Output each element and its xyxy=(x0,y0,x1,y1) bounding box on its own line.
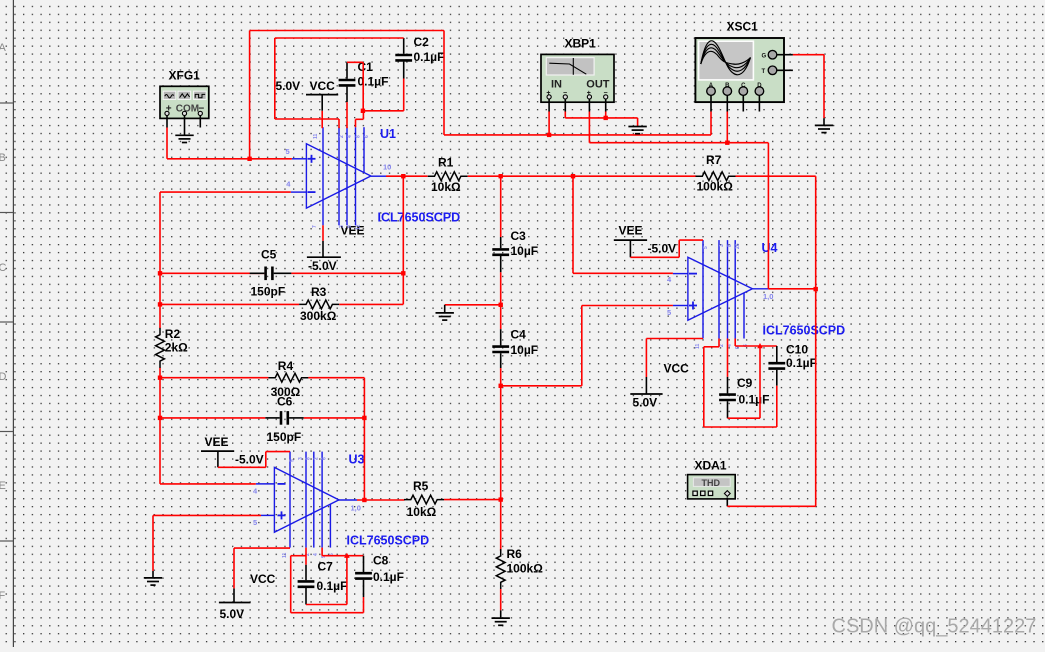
power VCC U3 5.0V xyxy=(219,588,251,602)
svg-text:0.1µF: 0.1µF xyxy=(739,393,770,407)
resistor R6 100k xyxy=(496,549,505,618)
wire C10 bottom outer loop xyxy=(704,339,777,428)
power VCC U4 5.0V xyxy=(630,377,662,394)
svg-text:2: 2 xyxy=(339,135,345,138)
wire U3 pin to C8 top xyxy=(322,548,363,556)
svg-text:8: 8 xyxy=(306,457,312,460)
svg-text:VEE: VEE xyxy=(619,224,643,238)
wire node to U1 pin 8 xyxy=(356,111,364,127)
junction XFG1 to U1 + xyxy=(247,157,251,161)
svg-text:C2: C2 xyxy=(414,35,430,49)
svg-text:VCC: VCC xyxy=(664,362,690,376)
svg-text:R5: R5 xyxy=(413,479,429,493)
svg-text:10: 10 xyxy=(383,163,391,172)
svg-text:G: G xyxy=(762,54,767,60)
svg-text:10kΩ: 10kΩ xyxy=(431,180,461,194)
op-amp U1 ICL7650SCPD xyxy=(291,127,386,225)
svg-text:0.1µF: 0.1µF xyxy=(786,356,817,370)
power VCC U1 5.0V xyxy=(306,95,338,111)
svg-text:-5.0V: -5.0V xyxy=(308,259,337,273)
junction node C1-C2 xyxy=(361,109,365,113)
wire R7 to output corner xyxy=(736,176,816,506)
wire VCC to U1 pin xyxy=(321,111,323,128)
pin labels U1 xyxy=(286,133,392,230)
junction arrow C7-C8 net xyxy=(344,553,350,558)
wire XSC1 T stub xyxy=(777,69,793,71)
ground XBP1 xyxy=(628,126,646,128)
power VEE U1 -5.0V xyxy=(307,241,341,257)
wire U1 inverting input rail xyxy=(160,192,291,484)
svg-text:8: 8 xyxy=(356,135,362,138)
wire VEE to U3 pin xyxy=(218,452,290,468)
wire XBP1 OUT+ to output rail xyxy=(589,99,768,143)
svg-text:U4: U4 xyxy=(762,241,778,255)
junction U4 inverting node xyxy=(571,174,575,178)
svg-text:C9: C9 xyxy=(737,376,753,390)
svg-text:10kΩ: 10kΩ xyxy=(407,505,437,519)
power VEE U3 -5.0V xyxy=(201,451,234,467)
wire output rail down to U4 output xyxy=(767,143,769,289)
junction C3-C4 node xyxy=(499,303,503,307)
op-amp U4 ICL7650SCPD xyxy=(673,240,769,338)
wire U3 output to R5 xyxy=(357,499,405,501)
wire XBP1 IN- to ground xyxy=(565,99,637,127)
instrument XBP1 bode plotter xyxy=(541,54,614,102)
resistor R1 10k xyxy=(428,172,468,181)
wire U4 output xyxy=(768,288,815,290)
svg-text:IN: IN xyxy=(551,79,562,91)
svg-text:A: A xyxy=(0,42,7,54)
svg-text:3: 3 xyxy=(298,457,304,460)
svg-text:XDA1: XDA1 xyxy=(695,459,727,473)
junction C6 right xyxy=(362,416,366,420)
svg-text:T: T xyxy=(762,69,766,75)
pin labels U3 xyxy=(253,457,361,558)
wire C1 bottom to U1 pin xyxy=(346,102,348,128)
svg-text:1,0: 1,0 xyxy=(763,292,773,301)
capacitor C2 0.1uF xyxy=(395,38,412,79)
wire VCC to U4 pin xyxy=(646,339,703,378)
svg-text:XFG1: XFG1 xyxy=(169,69,201,83)
svg-text:B: B xyxy=(0,152,6,164)
junction C6 left xyxy=(158,416,162,420)
svg-text:26: 26 xyxy=(735,243,741,249)
svg-text:CSDN @qq_52441227: CSDN @qq_52441227 xyxy=(832,616,1037,638)
ground C3-C4 node xyxy=(436,312,454,314)
svg-text:XSC1: XSC1 xyxy=(727,20,759,34)
wire C1 top to node xyxy=(347,62,363,111)
svg-text:2: 2 xyxy=(314,457,320,460)
wire U3 + input to ground xyxy=(153,515,261,578)
instrument XFG1 function generator xyxy=(160,86,209,118)
wire U1 VEE pin xyxy=(322,225,324,241)
svg-text:0.1µF: 0.1µF xyxy=(373,570,404,584)
svg-text:R7: R7 xyxy=(706,153,722,167)
wire XDA1 to output rail xyxy=(727,498,815,507)
wire XBP1 IN+ to signal rail xyxy=(548,99,550,135)
svg-text:C10: C10 xyxy=(786,343,808,357)
capacitor C10 0.1uF xyxy=(768,346,785,386)
resistor R3 300k xyxy=(160,176,403,309)
capacitor C5 150pF xyxy=(160,267,403,281)
capacitor C4 10uF xyxy=(492,305,509,386)
junction R5 node xyxy=(499,497,503,501)
svg-text:5: 5 xyxy=(667,308,671,317)
svg-text:0.1µF: 0.1µF xyxy=(414,50,445,64)
junction C4 bottom node xyxy=(499,384,503,388)
capacitor C1 0.1uF xyxy=(339,62,356,102)
svg-text:ICL7650SCPD: ICL7650SCPD xyxy=(763,324,846,338)
svg-text:3: 3 xyxy=(339,225,345,228)
svg-text:R2: R2 xyxy=(165,327,181,341)
wire XSC1 A to signal rail xyxy=(710,96,712,112)
svg-text:5.0V: 5.0V xyxy=(276,79,301,93)
capacitor C3 10uF xyxy=(492,176,509,305)
svg-text:R1: R1 xyxy=(438,156,454,170)
svg-text:150pF: 150pF xyxy=(251,285,286,299)
svg-text:2: 2 xyxy=(719,344,725,347)
wire R5 to node xyxy=(444,499,501,501)
pin labels U4 xyxy=(667,243,773,349)
wire XSC1 G to ground xyxy=(777,55,824,126)
ground R6 xyxy=(492,617,510,619)
ground XSC1 xyxy=(815,124,833,126)
junction U1 output xyxy=(401,174,405,178)
svg-text:1,0: 1,0 xyxy=(351,504,361,513)
junction C3 top node xyxy=(499,174,503,178)
svg-text:E: E xyxy=(0,480,6,492)
svg-text:D: D xyxy=(0,371,7,383)
junction XBP1 IN+ xyxy=(547,133,551,137)
svg-text:10µF: 10µF xyxy=(511,244,539,258)
svg-text:0.1µF: 0.1µF xyxy=(358,75,389,89)
junction C5 left xyxy=(158,271,162,275)
svg-text:100kΩ: 100kΩ xyxy=(697,180,734,194)
wire C2 top loop to U1 pin 2 xyxy=(275,38,404,128)
wire XSC1 C stub xyxy=(742,96,744,112)
svg-text:10µF: 10µF xyxy=(511,343,539,357)
svg-text:4: 4 xyxy=(313,553,319,556)
junction U3 output xyxy=(362,498,366,502)
instrument XDA1 distortion analyzer xyxy=(688,475,736,499)
wire XFG1 minus stub xyxy=(199,115,201,127)
wire U1 output to R1 xyxy=(386,175,428,177)
wire ground branch C3-C4 node xyxy=(445,305,501,313)
wire XFG1 to top rail xyxy=(250,31,711,159)
wire U4 + input branch xyxy=(501,306,673,386)
wire node to R6 xyxy=(500,386,502,551)
svg-text:R4: R4 xyxy=(278,359,294,373)
svg-text:XBP1: XBP1 xyxy=(565,37,597,51)
svg-text:150pF: 150pF xyxy=(267,430,302,444)
svg-text:11: 11 xyxy=(282,552,288,558)
junction R3 left xyxy=(158,302,162,306)
svg-text:U1: U1 xyxy=(380,127,396,141)
svg-text:U3: U3 xyxy=(349,453,365,467)
wire R4-C6 right rail to U3 output xyxy=(363,378,365,500)
svg-text:5.0V: 5.0V xyxy=(633,396,658,410)
wire R1 to R7 xyxy=(468,175,697,177)
svg-text:C: C xyxy=(0,262,7,274)
svg-text:4: 4 xyxy=(347,135,353,138)
svg-text:C8: C8 xyxy=(373,554,389,568)
wire C8 bottom outer loop xyxy=(291,556,364,613)
svg-text:300kΩ: 300kΩ xyxy=(300,309,337,323)
wire XSC1 D stub xyxy=(758,96,760,112)
svg-text:11: 11 xyxy=(313,133,319,139)
svg-text:-5.0V: -5.0V xyxy=(648,242,677,256)
wire C9 bottom to net xyxy=(728,346,761,418)
ground XFG1 xyxy=(175,134,193,136)
svg-text:C4: C4 xyxy=(511,328,527,342)
svg-text:5.0V: 5.0V xyxy=(220,607,245,621)
junction C5 right xyxy=(401,271,405,275)
svg-text:5: 5 xyxy=(253,518,257,527)
resistor R2 2k xyxy=(156,328,165,368)
junction R4 left xyxy=(158,376,162,380)
wire U4 pin to C10 top xyxy=(735,339,777,347)
svg-text:6: 6 xyxy=(322,457,328,460)
wire C7 bottom loop xyxy=(306,556,347,605)
capacitor C7 0.1uF xyxy=(298,548,315,605)
svg-text:COM: COM xyxy=(176,104,199,115)
svg-text:3: 3 xyxy=(719,244,725,247)
wire XSC1 B to output rail xyxy=(726,96,728,143)
svg-text:8: 8 xyxy=(727,244,733,247)
capacitor C9 0.1uF xyxy=(719,339,736,419)
capacitor C6 150pF xyxy=(160,411,364,425)
svg-text:0.1µF: 0.1µF xyxy=(317,579,348,593)
capacitor C8 0.1uF xyxy=(355,556,372,597)
junction XSC1 B xyxy=(725,141,729,145)
svg-text:VEE: VEE xyxy=(205,435,229,449)
ground U3 + xyxy=(144,577,162,579)
svg-text:7: 7 xyxy=(312,225,318,228)
svg-text:F: F xyxy=(0,590,6,602)
power VEE U4 -5.0V xyxy=(614,240,647,257)
svg-text:6: 6 xyxy=(364,135,370,138)
svg-text:THD: THD xyxy=(702,478,721,488)
resistor R5 10k xyxy=(404,495,444,504)
wire C2 bottom to node xyxy=(363,79,404,111)
junction XBP1 OUT- xyxy=(604,116,608,120)
wire XFG1 plus terminal down xyxy=(167,115,292,158)
svg-text:5: 5 xyxy=(703,246,709,249)
svg-text:2kΩ: 2kΩ xyxy=(165,341,188,355)
svg-text:C5: C5 xyxy=(261,248,277,262)
wire U4 inverting branch xyxy=(573,176,673,273)
svg-text:C3: C3 xyxy=(511,229,527,243)
svg-text:9: 9 xyxy=(347,225,353,228)
svg-text:ICL7650SCPD: ICL7650SCPD xyxy=(378,211,461,225)
svg-text:5: 5 xyxy=(286,147,290,156)
junction arrow C9-C10 net xyxy=(757,343,763,348)
resistor R4 300 xyxy=(160,373,364,382)
svg-text:5: 5 xyxy=(290,459,296,462)
junction U4 output xyxy=(814,287,818,291)
wire XFG1 COM to ground xyxy=(184,115,186,135)
op-amp U3 ICL7650SCPD xyxy=(256,452,357,548)
svg-text:R6: R6 xyxy=(507,547,523,561)
svg-text:ICL7650SCPD: ICL7650SCPD xyxy=(347,534,430,548)
svg-text:VCC: VCC xyxy=(250,572,276,586)
wire XBP1 OUT- to ground net xyxy=(605,99,607,118)
svg-text:C7: C7 xyxy=(318,560,334,574)
svg-text:OUT: OUT xyxy=(586,79,610,91)
svg-text:VCC: VCC xyxy=(310,79,336,93)
wire VCC to U3 pin xyxy=(234,548,290,588)
svg-text:C6: C6 xyxy=(277,395,293,409)
instrument XSC1 oscilloscope xyxy=(695,38,784,102)
svg-text:R3: R3 xyxy=(311,285,327,299)
wire VEE to U4 pin xyxy=(630,240,703,257)
svg-text:12: 12 xyxy=(356,224,362,230)
resistor R7 100k xyxy=(696,172,736,181)
svg-text:-5.0V: -5.0V xyxy=(235,453,264,467)
svg-text:11: 11 xyxy=(695,343,701,349)
svg-text:100kΩ: 100kΩ xyxy=(507,562,544,576)
